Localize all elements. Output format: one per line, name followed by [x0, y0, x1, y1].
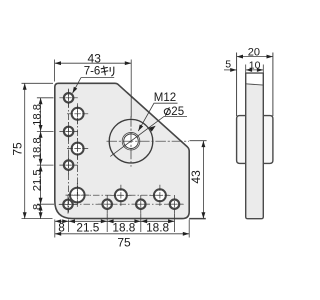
left chain ext h1	[37, 97, 54, 99]
crosshair h1	[59, 89, 77, 107]
svg-text:43: 43	[88, 51, 102, 65]
crosshair L3	[110, 185, 131, 206]
svg-text:20: 20	[248, 47, 260, 59]
svg-text:75: 75	[11, 142, 25, 156]
svg-text:18.8: 18.8	[112, 220, 135, 234]
dim 43 top ext right	[130, 60, 132, 118]
svg-text:75: 75	[117, 236, 131, 250]
plate outline	[55, 83, 189, 218]
svg-text:8: 8	[31, 204, 43, 210]
crosshair L2	[67, 138, 88, 159]
kiri katakana ri	[110, 67, 114, 76]
hole h2	[64, 127, 73, 136]
crosshair corner-small	[59, 195, 77, 213]
side dim 5 line	[224, 69, 237, 71]
left chain ext corner	[37, 203, 54, 205]
svg-text:43: 43	[189, 170, 203, 184]
left chain dim 21.5	[40, 165, 42, 204]
dim 75 left ext top	[22, 82, 54, 84]
svg-text:7-6: 7-6	[84, 65, 101, 77]
svg-text:21.5: 21.5	[31, 169, 43, 191]
left column centerline	[68, 90, 70, 213]
left zigzag centerline	[77, 106, 79, 204]
leader 7-6 kiri	[73, 78, 82, 94]
leader phi25	[110, 117, 187, 157]
side inner ext left	[245, 65, 247, 74]
bottom chain dim 18.8 b	[141, 220, 175, 222]
dim 43 right ext top	[190, 140, 207, 142]
svg-text:18.8: 18.8	[146, 220, 169, 234]
crosshair h2	[59, 122, 77, 140]
dim 43 top ext left	[54, 60, 56, 82]
svg-text:18.8: 18.8	[31, 104, 43, 126]
left chain ext h2	[37, 130, 54, 132]
side inner ext right	[262, 65, 264, 74]
bottom chain ext b2	[140, 214, 142, 233]
hole h1	[64, 93, 73, 102]
hole h3	[64, 160, 73, 169]
left chain dim 18.8 a	[40, 98, 42, 132]
hole L1	[72, 108, 84, 120]
crosshair b1	[98, 195, 116, 213]
crosshair b2	[132, 195, 150, 213]
crosshair b3	[165, 195, 183, 213]
left chain dim 8	[40, 204, 42, 218]
leader phi25 arrowhead	[149, 126, 156, 132]
bottom chain dim 21.5	[69, 220, 108, 222]
side white strip top	[247, 74, 263, 85]
side dim 20 line	[237, 56, 273, 58]
side dim 20 ext left	[236, 53, 238, 117]
M12 tapped hole	[122, 132, 140, 150]
svg-text:5: 5	[225, 59, 231, 71]
hole L3	[115, 189, 127, 201]
hole b1	[103, 200, 112, 209]
hole L2	[72, 143, 84, 155]
dim 75 bottom line	[55, 233, 189, 235]
dim 75 left ext bottom	[22, 218, 53, 220]
dim 75 left line	[24, 83, 26, 218]
dim 43 right ext bottom	[189, 218, 206, 220]
boss horizontal centerline	[107, 140, 190, 142]
side dim 20 ext right	[272, 53, 274, 117]
side right boss wing	[263, 116, 273, 164]
bottom zigzag centerline	[69, 194, 169, 196]
crosshair corner-large	[66, 183, 90, 207]
bottom chain ext b1	[106, 214, 108, 233]
dim 75 bottom ext left	[54, 220, 56, 238]
left chain ext h3	[37, 164, 54, 166]
hole b2	[136, 200, 145, 209]
bottom row centerline	[60, 203, 184, 205]
bottom chain ext b3	[174, 214, 176, 233]
label 7-6 kiri underline	[81, 77, 114, 79]
hole corner-large	[70, 188, 85, 203]
svg-text:8: 8	[58, 220, 65, 234]
label phi25	[164, 107, 170, 115]
bottom chain ext corner	[68, 220, 70, 233]
hole b3	[170, 200, 179, 209]
hole L4	[154, 189, 166, 201]
boss vertical centerline	[130, 116, 132, 166]
side left boss wing	[237, 116, 246, 164]
bottom chain dim 8	[55, 220, 69, 222]
crosshair L1	[67, 103, 88, 124]
crosshair L4	[149, 185, 170, 206]
crosshair h3	[59, 156, 77, 174]
svg-text:10: 10	[249, 60, 261, 72]
dim 75 bottom ext right	[188, 220, 190, 238]
side plate column	[246, 73, 264, 219]
bottom chain dim 18.8 a	[107, 220, 141, 222]
leader M12	[138, 103, 177, 131]
dim 43 right line	[202, 141, 204, 219]
dim 43 top line	[55, 62, 132, 64]
left chain dim 18.8 b	[40, 131, 42, 165]
svg-text:M12: M12	[154, 92, 176, 104]
boss circle phi25	[109, 119, 153, 163]
svg-text:18.8: 18.8	[31, 137, 43, 159]
side chamfer edge line	[246, 84, 264, 85]
side dim 10 line	[246, 69, 264, 71]
hole corner-small	[63, 200, 72, 209]
kiri katakana ki	[101, 66, 108, 76]
svg-text:21.5: 21.5	[76, 220, 99, 234]
